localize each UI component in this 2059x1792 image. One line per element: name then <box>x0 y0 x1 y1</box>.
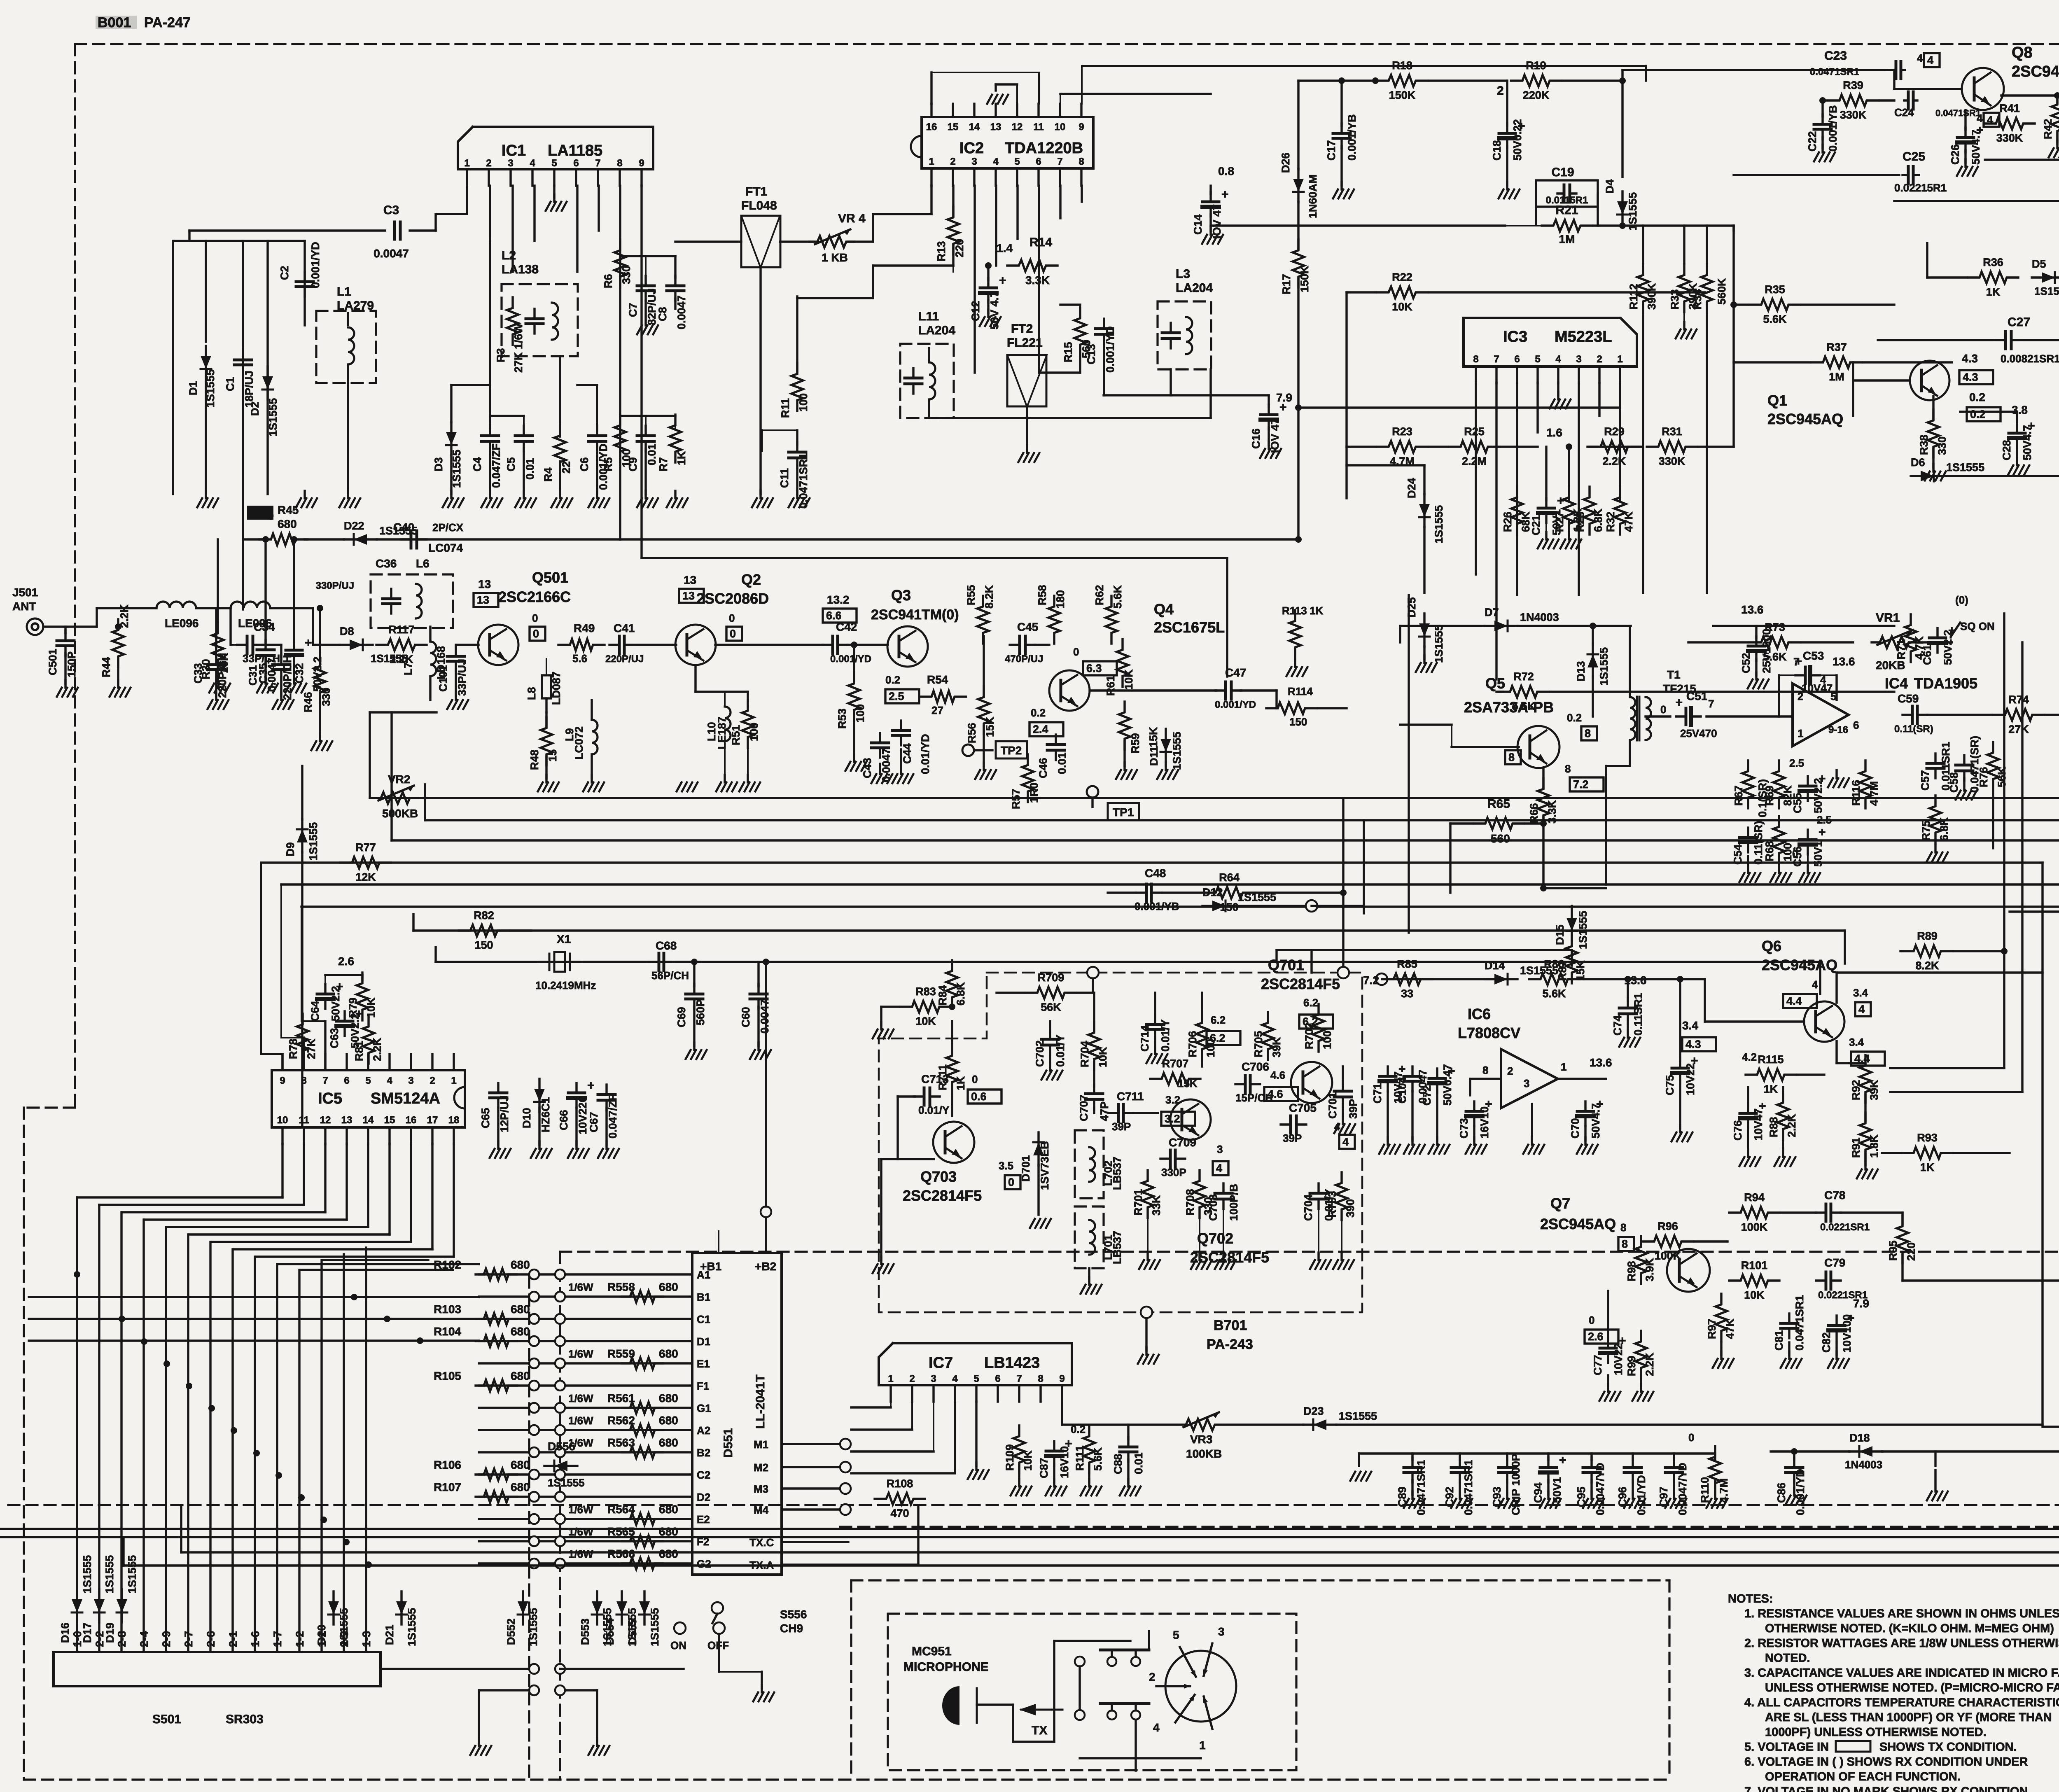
svg-text:0.11(SR): 0.11(SR) <box>1752 821 1765 865</box>
ground <box>1411 1137 1413 1145</box>
svg-text:7.9: 7.9 <box>1853 1297 1869 1310</box>
diode D19 1S1555 <box>121 1589 123 1622</box>
wire S501 pin 11 vertical <box>298 1270 300 1652</box>
svg-text:L2: L2 <box>502 249 516 262</box>
svg-text:0.0471SR1: 0.0471SR1 <box>1793 1295 1806 1351</box>
capacitor C79 0.02215R1 <box>1816 1279 1826 1281</box>
svg-text:SR303: SR303 <box>226 1713 264 1726</box>
svg-text:IC2: IC2 <box>959 140 984 157</box>
crystal X1 10.2419MHz <box>539 961 549 963</box>
svg-text:680: 680 <box>511 1458 530 1471</box>
svg-text:1/6W: 1/6W <box>568 1348 593 1360</box>
capacitor C706 15P/CH <box>1235 1083 1245 1085</box>
diode D24 1S1555 <box>1423 494 1425 527</box>
svg-text:680: 680 <box>659 1281 678 1293</box>
svg-text:8: 8 <box>301 1075 306 1086</box>
ground <box>693 1043 695 1050</box>
resistor R66 3.3K <box>1538 778 1549 826</box>
capacitor C81 0.0471SR1 <box>1788 1314 1790 1323</box>
svg-text:FL221: FL221 <box>1007 336 1043 350</box>
svg-text:100P/B: 100P/B <box>1228 1184 1240 1221</box>
svg-text:1-2: 1-2 <box>294 1631 306 1647</box>
svg-text:C101: C101 <box>437 665 449 692</box>
svg-text:7: 7 <box>595 158 600 169</box>
svg-text:D24: D24 <box>1405 478 1418 498</box>
svg-text:C3: C3 <box>383 203 399 217</box>
svg-text:R41: R41 <box>1999 102 2020 114</box>
IC7 pin 7 <box>1018 1385 1020 1402</box>
capacitor C63 50V2.2 <box>343 1011 346 1021</box>
svg-text:2-8: 2-8 <box>116 1631 128 1647</box>
ground <box>1584 1137 1586 1145</box>
svg-text:LB537: LB537 <box>1111 1231 1123 1264</box>
IC U3 box IC3 M5223L <box>1464 318 1637 366</box>
IC5 pin 3 <box>410 1054 412 1070</box>
svg-text:0.01: 0.01 <box>524 458 536 480</box>
wire fan row connectors <box>74 1271 80 1278</box>
resistor R115 1K <box>1746 1069 1796 1080</box>
svg-text:PA-243: PA-243 <box>1207 1337 1253 1352</box>
inductor L8 LD087 <box>542 675 551 698</box>
svg-text:R38: R38 <box>1918 434 1930 455</box>
capacitor C3 0.0047 <box>393 229 395 231</box>
svg-text:C104: C104 <box>1396 1077 1408 1104</box>
transistor Q501 2SC2166C <box>478 625 518 665</box>
svg-text:1/6W: 1/6W <box>568 1526 593 1538</box>
resistor R44 2.2K <box>112 619 124 667</box>
svg-text:1N4003: 1N4003 <box>1845 1458 1882 1471</box>
wire bottom rails <box>181 1551 2059 1553</box>
svg-text:10K: 10K <box>915 1015 936 1027</box>
svg-text:2: 2 <box>1597 354 1602 365</box>
svg-text:IOV 47: IOV 47 <box>1211 204 1223 239</box>
svg-text:39K: 39K <box>1868 1080 1880 1100</box>
bus left verticals <box>369 712 371 798</box>
dashed border PA-247 board <box>75 43 2059 45</box>
microphone capsule <box>942 1686 959 1725</box>
transistor Q4 2SC1675L <box>1049 670 1090 711</box>
svg-text:0: 0 <box>533 628 539 640</box>
svg-text:1S1555: 1S1555 <box>1598 647 1610 686</box>
potentiometer VR2 500KB <box>373 792 418 804</box>
transistor Q7 2SC945AQ <box>1667 1249 1710 1292</box>
svg-text:4.6: 4.6 <box>1268 1088 1283 1100</box>
svg-text:D2: D2 <box>697 1491 710 1503</box>
transistor Q703 2SC2814F5 <box>933 1122 974 1163</box>
capacitor C75 10V22 <box>1679 1058 1681 1068</box>
capacitor C14 10V47 <box>1209 192 1212 202</box>
svg-text:1: 1 <box>888 1373 893 1384</box>
wire S501 pin 5 vertical <box>165 1227 167 1652</box>
ground <box>1747 866 1749 873</box>
resistor R4 22 <box>554 425 566 473</box>
svg-text:R105: R105 <box>434 1370 461 1382</box>
svg-text:50V 4.7: 50V 4.7 <box>988 291 1001 329</box>
svg-text:C67: C67 <box>588 1112 600 1132</box>
ground <box>1026 446 1028 453</box>
svg-text:R116: R116 <box>1850 780 1862 806</box>
ground <box>1545 532 1547 539</box>
resistor R62 5.6K <box>1106 596 1117 644</box>
svg-text:R4: R4 <box>542 467 554 482</box>
IC2 pin 10 <box>1059 104 1061 117</box>
svg-text:0.2: 0.2 <box>885 674 900 686</box>
ground <box>1145 1347 1147 1355</box>
svg-text:5.6K: 5.6K <box>1763 313 1787 325</box>
svg-text:8: 8 <box>1508 751 1515 763</box>
IC7 pin 3 <box>932 1385 934 1402</box>
resistor R58 180 <box>1048 596 1060 644</box>
wire D551 row C1 <box>479 1318 692 1320</box>
resistor R31 330K <box>1647 441 1697 453</box>
resistor R83 10K <box>901 1001 951 1013</box>
svg-text:C706: C706 <box>1242 1060 1269 1073</box>
svg-text:33K: 33K <box>1150 1195 1163 1216</box>
resistor R108 470 <box>875 1493 925 1505</box>
wire top rail from C17 <box>1298 79 1375 82</box>
IC3 pin 5 <box>1536 366 1538 383</box>
svg-text:0.2: 0.2 <box>1031 707 1046 719</box>
resistor R27 1.2K <box>1563 487 1575 534</box>
svg-text:50V2.2: 50V2.2 <box>329 986 342 1021</box>
wire fan drop <box>388 1144 390 1234</box>
svg-text:220: 220 <box>953 239 966 257</box>
svg-text:330P/UJ: 330P/UJ <box>316 580 354 591</box>
test point TP1 <box>1087 786 1098 798</box>
svg-text:0.0047: 0.0047 <box>675 295 688 329</box>
svg-text:680: 680 <box>659 1392 678 1405</box>
svg-text:D2: D2 <box>249 401 261 416</box>
svg-text:R74: R74 <box>2008 693 2029 706</box>
svg-text:R54: R54 <box>927 673 948 686</box>
svg-text:TX: TX <box>1032 1724 1047 1737</box>
svg-text:0.8: 0.8 <box>1218 165 1234 177</box>
svg-text:R23: R23 <box>1392 425 1412 438</box>
bus wire y2202 <box>301 905 2059 908</box>
svg-text:R56: R56 <box>966 723 978 743</box>
wire D551 row B1 <box>479 1295 692 1297</box>
svg-text:15K: 15K <box>1147 727 1160 747</box>
capacitor C43 0.0047 <box>879 733 881 743</box>
svg-text:8: 8 <box>1473 354 1478 365</box>
capacitor C92 0.0471SR1 <box>1459 1458 1461 1468</box>
resistor R59 15K <box>1119 702 1130 749</box>
resistor R30 10K <box>212 623 224 670</box>
ground <box>1683 322 1685 329</box>
svg-text:D10: D10 <box>521 1108 533 1128</box>
svg-text:1S1555: 1S1555 <box>1339 1410 1377 1422</box>
ground <box>1294 660 1296 667</box>
svg-text:C11: C11 <box>778 468 791 488</box>
svg-text:0.01/Y: 0.01/Y <box>918 1104 949 1116</box>
capacitor C1 18P/UJ <box>242 350 244 360</box>
capacitor C702 0.01/Y <box>1049 1029 1051 1039</box>
ground <box>217 676 219 684</box>
svg-text:B2: B2 <box>697 1447 710 1459</box>
svg-text:7: 7 <box>1494 354 1499 365</box>
svg-text:D14: D14 <box>1485 959 1505 972</box>
IC1 pin 9 <box>640 169 642 186</box>
dashed microphone box <box>888 1614 1296 1770</box>
svg-text:8: 8 <box>617 158 622 169</box>
inductor L9 LC072 <box>592 720 598 754</box>
svg-text:4: 4 <box>1555 354 1561 365</box>
ground <box>644 301 647 325</box>
svg-text:4: 4 <box>387 1075 392 1086</box>
IC5 pin 7 <box>324 1054 326 1070</box>
svg-text:8: 8 <box>1482 1064 1488 1076</box>
svg-text:1. RESISTANCE VALUES ARE SHOWN: 1. RESISTANCE VALUES ARE SHOWN IN OHMS U… <box>1744 1607 2059 1620</box>
svg-text:680: 680 <box>511 1258 530 1271</box>
resistor R81 2.2K <box>363 1016 374 1064</box>
svg-text:6: 6 <box>1853 719 1859 731</box>
resistor R96 100K <box>1643 1236 1693 1247</box>
svg-text:R68: R68 <box>1763 841 1776 861</box>
svg-text:13: 13 <box>341 1115 353 1126</box>
svg-text:0.02215R1: 0.02215R1 <box>1894 182 1947 194</box>
ground <box>1317 1253 1319 1260</box>
IC1 pin 2 <box>488 169 490 186</box>
svg-text:5: 5 <box>1014 156 1020 167</box>
svg-text:16V10: 16V10 <box>1478 1106 1491 1139</box>
svg-text:C73: C73 <box>1458 1118 1470 1139</box>
ground <box>489 491 491 498</box>
resistor R39 330K <box>1828 95 1878 106</box>
svg-text:470: 470 <box>890 1507 909 1519</box>
ground <box>1340 182 1342 189</box>
ground <box>347 491 349 498</box>
svg-text:M5223L: M5223L <box>1555 328 1612 345</box>
ground <box>1342 1117 1344 1124</box>
svg-text:E1: E1 <box>697 1358 710 1370</box>
svg-text:S501: S501 <box>152 1713 181 1726</box>
IC2 top wiring gnd <box>1016 84 1018 104</box>
svg-text:1M: 1M <box>1559 233 1575 245</box>
svg-text:3: 3 <box>1217 1143 1223 1155</box>
svg-text:C77: C77 <box>1592 1355 1604 1375</box>
svg-text:D6: D6 <box>1911 456 1925 469</box>
svg-text:3.8: 3.8 <box>2012 404 2028 416</box>
capacitor C21 50V1 <box>1545 498 1547 508</box>
svg-text:14: 14 <box>969 121 980 133</box>
capacitor C78 0.0221SR1 <box>1816 1211 1826 1213</box>
svg-text:2: 2 <box>1497 84 1504 98</box>
svg-text:1/6W: 1/6W <box>568 1503 593 1516</box>
capacitor C705 39P <box>1281 1123 1291 1125</box>
svg-text:R75: R75 <box>1920 820 1932 841</box>
wire pin8 row <box>1298 406 1620 408</box>
svg-text:R84: R84 <box>936 985 949 1006</box>
channel selector S501 SR303 box <box>54 1652 381 1686</box>
ground <box>1720 1351 1722 1359</box>
svg-text:D7: D7 <box>1485 606 1499 618</box>
transistor Q701 2SC2814F5 <box>1291 1062 1332 1103</box>
capacitor C707 47P <box>1093 1084 1095 1094</box>
svg-text:18: 18 <box>448 1115 460 1126</box>
svg-text:R707: R707 <box>1162 1057 1189 1070</box>
resistor R53 100 <box>848 673 860 721</box>
svg-text:2-3: 2-3 <box>338 1631 350 1647</box>
capacitor C61 50V2.2 <box>1936 628 1938 638</box>
svg-text:R77: R77 <box>355 841 376 854</box>
svg-text:0.2: 0.2 <box>1969 391 1985 404</box>
mic connector pin 3 <box>1204 1643 1212 1676</box>
svg-text:2-2: 2-2 <box>93 1631 106 1647</box>
svg-text:6.8K: 6.8K <box>1592 508 1604 532</box>
svg-text:M4: M4 <box>754 1504 769 1516</box>
ground <box>1387 1137 1389 1145</box>
resistor R75 6.8K <box>1930 796 1941 843</box>
resistor R67 <box>1742 761 1754 808</box>
svg-text:D555: D555 <box>626 1618 639 1645</box>
svg-text:R59: R59 <box>1129 733 1142 754</box>
capacitor C86 0.001/YD <box>1793 1458 1795 1468</box>
inductor L5 LE096 <box>231 602 270 608</box>
ground <box>1864 1162 1866 1169</box>
svg-text:VR3: VR3 <box>1190 1433 1212 1446</box>
svg-text:0.001/YB: 0.001/YB <box>1135 900 1179 912</box>
svg-text:C69: C69 <box>675 1007 688 1027</box>
svg-text:7: 7 <box>322 1075 328 1086</box>
svg-text:4. ALL CAPACITORS TEMPERATURE: 4. ALL CAPACITORS TEMPERATURE CHARACTERI… <box>1744 1696 2059 1709</box>
resistor R116 4.7M <box>1860 761 1871 808</box>
wire S501 pin 6 vertical <box>187 1234 189 1652</box>
svg-text:ON: ON <box>670 1639 686 1652</box>
inductor L4 LE096 <box>156 602 196 608</box>
svg-text:1: 1 <box>1199 1739 1206 1752</box>
svg-text:0.01: 0.01 <box>646 443 658 465</box>
inductor L2 LA138 dashed box <box>502 284 578 356</box>
svg-text:C54: C54 <box>1732 844 1744 865</box>
capacitor C51 25V470 <box>1676 715 1686 717</box>
ground <box>1835 770 1837 778</box>
svg-text:LE096: LE096 <box>165 617 199 630</box>
svg-text:12: 12 <box>320 1115 331 1126</box>
dashed coil L701 LB537 <box>1075 1206 1104 1268</box>
svg-text:D551: D551 <box>721 1428 735 1458</box>
svg-text:0.01: 0.01 <box>1132 1452 1145 1474</box>
svg-text:1S1555: 1S1555 <box>2034 285 2059 297</box>
capacitor C501 150P <box>64 631 66 641</box>
wire Q8 base <box>1894 88 1962 90</box>
svg-text:5: 5 <box>365 1075 371 1086</box>
inductor L1 LA279 dashed box <box>316 311 376 383</box>
svg-text:13.6: 13.6 <box>1833 655 1855 668</box>
IC2 pin 12 <box>1016 104 1018 117</box>
capacitor C35 220P/CH <box>280 655 282 665</box>
svg-text:3: 3 <box>971 156 977 167</box>
svg-text:8.2K: 8.2K <box>1915 959 1939 972</box>
capacitor C713 0.01/Y <box>914 1095 924 1097</box>
capacitor C70 50V4.7 <box>1584 1101 1586 1111</box>
svg-text:27K: 27K <box>2008 723 2029 735</box>
diode D15 1S1555 <box>1571 908 1573 941</box>
svg-text:+: + <box>1559 1454 1566 1467</box>
capacitor C94 50V1 <box>1547 1458 1549 1468</box>
svg-text:7. VOLTAGE IN NO MARK SHOWS RX: 7. VOLTAGE IN NO MARK SHOWS RX CONDITION… <box>1744 1785 2031 1792</box>
ground <box>497 1141 499 1149</box>
svg-text:330P: 330P <box>1161 1166 1186 1178</box>
svg-text:C88: C88 <box>1112 1454 1124 1474</box>
svg-text:1K: 1K <box>1764 1083 1778 1095</box>
IC1 pin 1 <box>466 169 468 186</box>
svg-text:180: 180 <box>1054 590 1067 609</box>
svg-text:R93: R93 <box>1917 1132 1938 1144</box>
svg-text:10K: 10K <box>1022 1450 1034 1471</box>
svg-text:C4: C4 <box>471 457 483 471</box>
svg-text:R25: R25 <box>1464 425 1485 438</box>
svg-text:R562: R562 <box>607 1414 635 1427</box>
transformer T1 TF215 <box>1630 697 1635 740</box>
svg-text:C66: C66 <box>558 1110 570 1130</box>
grounds under Q702 <box>1147 1210 1149 1256</box>
svg-text:C28: C28 <box>2001 440 2013 460</box>
svg-text:C46: C46 <box>1037 758 1049 778</box>
capacitor C59 0.11SR1 <box>1903 714 1912 716</box>
svg-text:8: 8 <box>1622 1238 1628 1250</box>
svg-text:R97: R97 <box>1706 1318 1718 1339</box>
svg-text:0.001/YB: 0.001/YB <box>1346 114 1358 161</box>
svg-text:1K: 1K <box>955 1076 967 1090</box>
capacitor C24 0.0471SR1 <box>1904 99 1908 101</box>
resistor R566 680 <box>622 1558 663 1569</box>
svg-text:R67: R67 <box>1732 785 1745 806</box>
wire D551 row A2 <box>479 1429 692 1431</box>
svg-text:C47: C47 <box>1225 666 1246 679</box>
svg-text:R7: R7 <box>657 457 670 471</box>
mic PTT switch up <box>1075 1657 1085 1666</box>
svg-text:2.5: 2.5 <box>889 690 904 702</box>
svg-text:220: 220 <box>1905 1242 1917 1261</box>
resistor R77 12K <box>341 857 391 868</box>
IC2 pin 16 <box>930 104 932 117</box>
wire fan segment <box>212 1241 411 1243</box>
svg-text:6.2: 6.2 <box>1210 1032 1226 1044</box>
diode D552 1S1555 <box>522 1591 524 1624</box>
capacitor C89 0.0471SR1 <box>1411 1458 1413 1468</box>
svg-text:1-1: 1-1 <box>316 1631 328 1647</box>
wire Q6 emitter <box>1835 1041 1837 1063</box>
capacitor C12 50V 4.7 <box>987 278 989 288</box>
capacitor C74 0.11SR1 <box>1627 998 1629 1008</box>
resistor R92 39K <box>1860 1055 1871 1103</box>
ground <box>280 693 282 700</box>
svg-text:MICROPHONE: MICROPHONE <box>903 1660 989 1674</box>
svg-text:2: 2 <box>1149 1671 1156 1683</box>
capacitor C13 0.001/YD <box>1103 319 1105 329</box>
diode D20 1S1555 <box>332 1591 334 1624</box>
capacitor C33 220P/CH <box>215 655 217 665</box>
IC7 pin 4 <box>954 1385 956 1402</box>
test point TP2 <box>962 744 974 756</box>
wire D551 row G2 <box>479 1562 692 1564</box>
wire R89 row <box>1899 950 1901 952</box>
svg-text:F2: F2 <box>697 1535 709 1548</box>
capacitor C65 12P/UJ <box>497 1083 499 1093</box>
resistor R111 5.6K <box>1083 1426 1095 1473</box>
capacitor C41 220P/UJ <box>609 644 619 646</box>
svg-text:20KB: 20KB <box>1876 659 1905 672</box>
resistor R3 27K 1/6W <box>507 297 518 345</box>
resistor R74 27K <box>1994 709 2044 721</box>
svg-text:5: 5 <box>1535 354 1540 365</box>
svg-text:3.9K: 3.9K <box>1643 1258 1656 1281</box>
svg-text:R55: R55 <box>965 585 977 605</box>
svg-text:10: 10 <box>1055 121 1066 133</box>
svg-text:2: 2 <box>950 156 955 167</box>
ground <box>1165 763 1167 770</box>
svg-text:F1: F1 <box>697 1380 709 1392</box>
